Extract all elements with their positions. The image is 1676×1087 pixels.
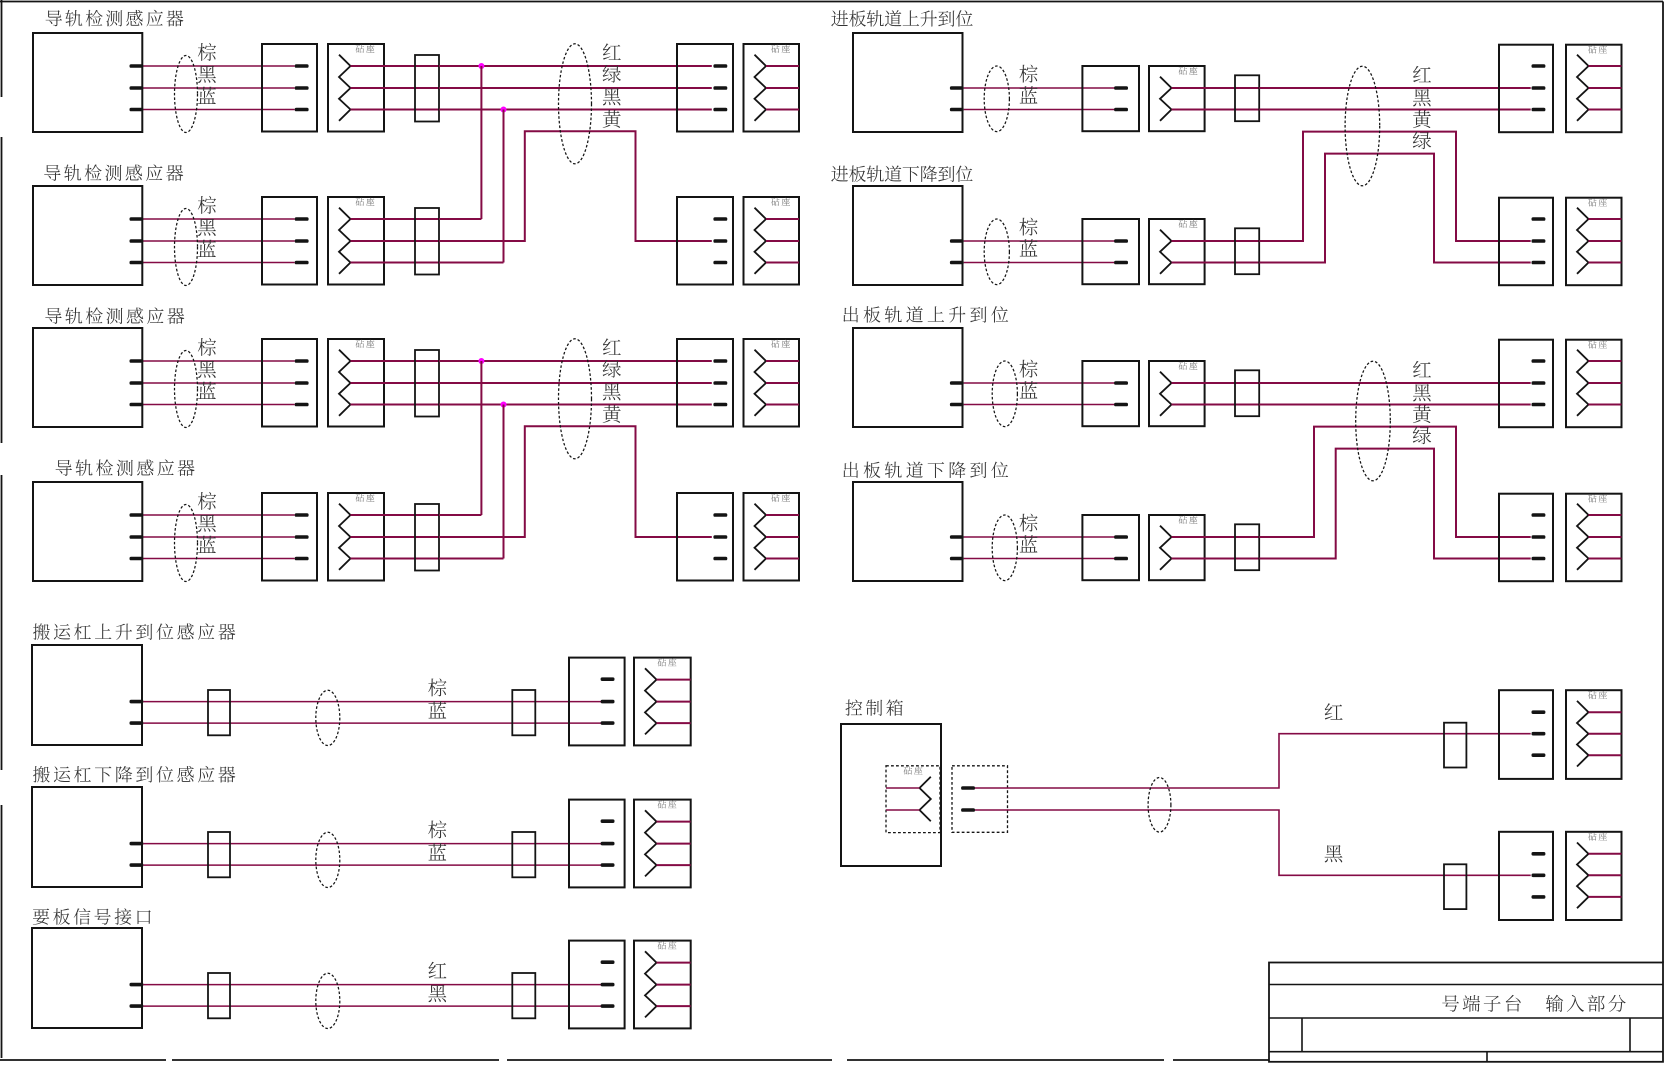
wire from 砧座 X4a [351, 536, 440, 538]
socket 砧座 X1a [328, 44, 384, 132]
wire from 砧座 X1a [351, 109, 440, 111]
wire 进板轨道下降到位 蓝 jog to terminal [1259, 154, 1531, 263]
socket 砧座 (进板轨道下降到位) label 砧座 [1179, 220, 1198, 228]
wire S7 pin1 (棕) [964, 382, 1115, 384]
wire colour label 棕 (出板轨道下降到位) [1019, 514, 1037, 532]
wire 出板轨道上升到位 蓝 to terminal [1259, 404, 1531, 406]
wire 蓝 (搬运杠上升到位感应器) [143, 722, 601, 724]
bus wire colour label 绿 (rows 1-2) [603, 65, 621, 83]
wire from 砧座 pin1 (进板轨道下降到位) [1172, 240, 1260, 242]
wire S5 pin1 (棕) [964, 87, 1115, 89]
wire from 砧座 pin2 (进板轨道下降到位) [1172, 262, 1260, 264]
wire colour label 黑 (要板信号接口) [428, 985, 446, 1002]
title text: 出板轨道上升到位 [843, 306, 1008, 323]
terminal connector (搬运杠下降到位感应器) [569, 800, 625, 888]
title block row dividers [1269, 985, 1663, 1052]
socket 砧座 X4b [744, 493, 800, 581]
cable sheath ellipse (要板信号接口) [316, 973, 340, 1028]
cable sheath ellipse, sensor S8 lead [992, 515, 1017, 581]
ferrule 1 (搬运杠上升到位感应器) [208, 690, 230, 735]
wire 进板轨道下降到位 棕 jog to terminal [1259, 132, 1531, 241]
terminal ferrule F1a [415, 55, 439, 122]
wire colour label 棕 (row 4) [198, 492, 216, 510]
socket 砧座 (出板轨道上升到位) label 砧座 [1179, 362, 1198, 370]
terminal socket 砧座 (进板轨道上升到位) [1566, 45, 1622, 133]
terminal socket 砧座 (进板轨道上升到位) label 砧座 [1588, 45, 1607, 53]
sensor S2 pins [130, 217, 144, 264]
socket 砧座 (进板轨道上升到位) label 砧座 [1179, 67, 1198, 75]
title text: 进板轨道下降到位 [831, 165, 972, 182]
ferrule 1 (搬运杠下降到位感应器) [208, 832, 230, 877]
wire colour label 黑 (控制箱) [1325, 845, 1343, 862]
cable sheath ellipse, sensor S5 lead [984, 66, 1009, 132]
wire 蓝 (搬运杠下降到位感应器) [143, 864, 601, 866]
wire S2 pin2 to plug (黑) [143, 240, 294, 242]
wire 红 from 控制箱 plug [975, 734, 1531, 788]
drawing frame right border [1662, 2, 1664, 963]
bus wire colour label 黑 (rows 1-2) [603, 88, 621, 105]
wire drop, junction to row 2 wire3 [503, 110, 505, 263]
terminal connector (搬运杠上升到位感应器) [569, 658, 625, 746]
socket 砧座 X2b [744, 197, 800, 285]
wire row 4 pin2 jog to connector [439, 426, 712, 537]
wire colour label 蓝 (搬运杠下降到位感应器) [428, 843, 446, 860]
terminal ferrule (出板轨道上升到位) [1235, 370, 1259, 416]
cable sheath ellipse (搬运杠上升到位感应器) [316, 690, 340, 745]
junction node, row 1 wire3 [501, 107, 507, 113]
title text: 搬运杠上升到位感应器 [33, 623, 235, 640]
wire colour label 棕 (row 2) [198, 196, 216, 214]
terminal socket 砧座 (红) [1566, 690, 1622, 779]
cable sheath ellipse, bus rows 3-4 [559, 339, 592, 459]
wire 出板轨道下降到位 棕 jog to terminal [1259, 427, 1531, 537]
terminal connector (黑) [1499, 832, 1553, 920]
socket 砧座 inside 控制箱 (dashed, mirrored) [886, 766, 940, 833]
wire colour label 蓝 (row 4) [198, 536, 216, 553]
wire from 砧座 pin2 (进板轨道上升到位) [1172, 109, 1260, 111]
terminal socket 砧座 (出板轨道上升到位) label 砧座 [1588, 340, 1607, 348]
bus wire colour label 红 (出板轨道上升到位/出板轨道下降到位) [1413, 361, 1431, 377]
cable sheath ellipse, sensor S6 lead [984, 219, 1009, 285]
cable sheath ellipse, sensor S4 lead [175, 505, 198, 582]
bus wire colour label 黄 (进板轨道上升到位/进板轨道下降到位) [1413, 110, 1431, 128]
terminal socket 砧座 (进板轨道下降到位) label 砧座 [1588, 198, 1607, 206]
wire from 砧座 X2a [351, 240, 440, 242]
bus wire colour label 黄 (rows 1-2) [603, 110, 621, 128]
wire 红, rows 3-4 bus [439, 360, 712, 362]
wire S2 pin3 to plug (蓝) [143, 262, 294, 264]
wire from 砧座 pin2 (出板轨道上升到位) [1172, 404, 1260, 406]
terminal ferrule F2a [415, 208, 439, 275]
sensor pins (搬运杠下降到位感应器) [130, 842, 144, 867]
wire colour label 蓝 (搬运杠上升到位感应器) [428, 701, 446, 718]
sensor S8 pins [950, 535, 964, 560]
connector plug (出板轨道下降到位) [1082, 515, 1139, 580]
wire 红, rows 1-2 bus [439, 65, 712, 67]
wire colour label 黑 (row 1) [198, 66, 216, 83]
wire row 4 pin1 to drop [439, 514, 481, 516]
title text: 搬运杠下降到位感应器 [33, 766, 235, 783]
socket 砧座 X2a [328, 197, 384, 285]
wire from 砧座 X2a [351, 218, 440, 220]
socket 砧座 X4a label 砧座 [356, 494, 375, 502]
drawing frame bottom border (dashed) [0, 1059, 1269, 1061]
sensor S5 pins [950, 86, 964, 111]
title text: 出板轨道下降到位 [843, 462, 1008, 479]
title block outline [1269, 963, 1663, 1062]
bus wire colour label 绿 (出板轨道上升到位/出板轨道下降到位) [1413, 426, 1431, 444]
terminal socket 砧座 (红) label 砧座 [1588, 691, 1607, 699]
connector plug P2a [262, 197, 317, 285]
terminal connector (红) [1499, 690, 1553, 779]
socket 砧座 (出板轨道下降到位) label 砧座 [1179, 516, 1198, 524]
terminal socket 砧座 (搬运杠下降到位感应器) [634, 800, 691, 888]
wire colour label 棕 (搬运杠上升到位感应器) [428, 678, 446, 696]
bus wire colour label 红 (进板轨道上升到位/进板轨道下降到位) [1413, 66, 1431, 82]
wire from 砧座 X1a [351, 87, 440, 89]
cable sheath ellipse, bus 进板轨道上升到位/进板轨道下降到位 [1345, 66, 1380, 186]
terminal connector (出板轨道上升到位) [1499, 340, 1553, 428]
wire 进板轨道上升到位 棕 to terminal [1259, 87, 1531, 89]
ferrule (黑 wire) [1444, 864, 1466, 909]
cable sheath ellipse, sensor S7 lead [992, 361, 1017, 427]
connector plug P1b [677, 44, 733, 132]
drawing frame top border [0, 1, 1663, 3]
wire colour label 棕 (进板轨道下降到位) [1019, 218, 1037, 236]
terminal socket 砧座 (搬运杠上升到位感应器) [634, 658, 691, 746]
wire colour label 黑 (row 2) [198, 219, 216, 236]
socket 砧座 X1a label 砧座 [356, 45, 375, 53]
wire from 砧座 X3a [351, 404, 440, 406]
sensor box (要板信号接口) [32, 928, 142, 1028]
wire 进板轨道上升到位 蓝 to terminal [1259, 109, 1531, 111]
bus wire colour label 绿 (rows 3-4) [603, 360, 621, 378]
wire row 2 pin2 jog to connector [439, 131, 712, 241]
title text: 控制箱 [845, 699, 902, 715]
wire colour label 蓝 (出板轨道上升到位) [1020, 381, 1038, 398]
title block column dividers [1302, 1018, 1630, 1062]
connector plug (出板轨道上升到位) [1082, 361, 1139, 426]
cable sheath ellipse (控制箱 lead) [1148, 778, 1171, 833]
wire S4 pin2 to plug (黑) [143, 536, 294, 538]
title block text: 号端子台 输入部分 [1442, 995, 1626, 1012]
wire from 砧座 X4a [351, 514, 440, 516]
sensor box (搬运杠下降到位感应器) [32, 787, 142, 887]
wire colour label 蓝 (进板轨道上升到位) [1020, 86, 1038, 103]
terminal ferrule (出板轨道下降到位) [1235, 524, 1259, 570]
wire 红 (要板信号接口) [143, 984, 601, 986]
wire from 砧座 X3a [351, 382, 440, 384]
socket 砧座 (进板轨道下降到位) [1149, 219, 1205, 284]
wire colour label 蓝 (出板轨道下降到位) [1020, 535, 1038, 552]
cable sheath ellipse, sensor S2 lead [175, 209, 198, 286]
socket 砧座 X2a label 砧座 [356, 198, 375, 206]
wire S8 pin2 (蓝) [964, 558, 1115, 560]
wire S6 pin2 (蓝) [964, 262, 1115, 264]
socket 砧座 (进板轨道上升到位) [1149, 66, 1205, 131]
socket 砧座 X2b label 砧座 [771, 198, 790, 206]
connector plug P3a [262, 339, 317, 427]
wire from 砧座 pin1 (出板轨道上升到位) [1172, 382, 1260, 384]
sensor S3 pins [130, 359, 144, 406]
terminal socket 砧座 (要板信号接口) label 砧座 [658, 941, 677, 949]
bus wire colour label 红 (rows 3-4) [603, 338, 621, 354]
wire S1 pin2 to plug (黑) [143, 87, 294, 89]
wire from 砧座 X1a [351, 65, 440, 67]
wire colour label 黑 (row 4) [198, 515, 216, 532]
wire row 4 pin3 to drop [439, 558, 504, 560]
terminal socket 砧座 (出板轨道下降到位) label 砧座 [1588, 494, 1607, 502]
bus wire colour label 红 (rows 1-2) [603, 43, 621, 59]
wire colour label 红 (控制箱) [1325, 703, 1343, 719]
bus wire colour label 绿 (进板轨道上升到位/进板轨道下降到位) [1413, 131, 1431, 149]
wire row 2 pin3 to drop [439, 262, 504, 264]
connector plug from 控制箱 (dashed) [952, 766, 1008, 833]
wire from 砧座 pin1 (进板轨道上升到位) [1172, 87, 1260, 89]
sensor S6 pins [950, 239, 964, 264]
cable sheath ellipse, bus rows 1-2 [559, 44, 592, 164]
bus wire colour label 黑 (出板轨道上升到位/出板轨道下降到位) [1413, 384, 1431, 401]
ferrule 2 (搬运杠上升到位感应器) [512, 690, 535, 735]
wire 棕 (搬运杠下降到位感应器) [143, 843, 601, 845]
wire row 2 pin1 to drop [439, 218, 481, 220]
title text: 导轨检测感应器 (row 3) [45, 307, 184, 324]
connector plug P4a [262, 493, 317, 581]
wire colour label 红 (要板信号接口) [428, 962, 446, 978]
sensor box S2 (导轨检测感应器) [33, 186, 142, 285]
connector plug P2b [677, 197, 733, 285]
wire S4 pin1 to plug (棕) [143, 514, 294, 516]
terminal socket 砧座 (黑) label 砧座 [1588, 832, 1607, 840]
wire from 砧座 X2a [351, 262, 440, 264]
wire 棕 (搬运杠上升到位感应器) [143, 701, 601, 703]
sensor S1 pins [130, 64, 144, 111]
sensor S7 pins [950, 381, 964, 406]
cable sheath ellipse, bus 出板轨道上升到位/出板轨道下降到位 [1356, 361, 1391, 481]
wire colour label 棕 (row 3) [198, 338, 216, 356]
wire colour label 黑 (row 3) [198, 361, 216, 378]
wire colour label 蓝 (row 3) [198, 382, 216, 399]
wire colour label 棕 (出板轨道上升到位) [1019, 360, 1037, 378]
socket 砧座 X3a [328, 339, 384, 427]
title text: 导轨检测感应器 (row 2) [44, 164, 183, 181]
terminal socket 砧座 (要板信号接口) [634, 941, 691, 1029]
sensor box S4 (导轨检测感应器) [33, 482, 142, 581]
connector plug P1a [262, 44, 317, 132]
sensor pins (搬运杠上升到位感应器) [130, 700, 144, 725]
ferrule 2 (搬运杠下降到位感应器) [512, 832, 535, 877]
terminal ferrule (进板轨道下降到位) [1235, 228, 1259, 274]
ferrule 1 (要板信号接口) [208, 973, 230, 1018]
wire colour label 棕 (进板轨道上升到位) [1019, 65, 1037, 83]
socket 砧座 (出板轨道下降到位) [1149, 515, 1205, 580]
wire from 砧座 X4a [351, 558, 440, 560]
wire from 砧座 X3a [351, 360, 440, 362]
sensor S4 pins [130, 513, 144, 560]
title text: 要板信号接口 [33, 908, 151, 925]
wire colour label 蓝 (进板轨道下降到位) [1020, 239, 1038, 256]
wire S3 pin2 to plug (黑) [143, 382, 294, 384]
junction node, row 3 wire1 [478, 358, 484, 364]
connector plug (进板轨道下降到位) [1082, 219, 1139, 284]
wire 绿, rows 1-2 bus [439, 87, 712, 89]
wire S6 pin1 (棕) [964, 240, 1115, 242]
socket 砧座 X4a [328, 493, 384, 581]
control box 控制箱 [841, 724, 941, 866]
wire drop, junction to row 4 wire3 [503, 405, 505, 559]
wire S7 pin2 (蓝) [964, 404, 1115, 406]
wire S5 pin2 (蓝) [964, 109, 1115, 111]
socket 砧座 inside 控制箱 (dashed, mirrored) label 砧座 [904, 766, 923, 774]
terminal connector (出板轨道下降到位) [1499, 494, 1553, 582]
bus wire colour label 黄 (出板轨道上升到位/出板轨道下降到位) [1413, 405, 1431, 423]
sensor pins (要板信号接口) [130, 983, 144, 1008]
wire from 砧座 pin1 (出板轨道下降到位) [1172, 536, 1260, 538]
bus wire colour label 黑 (进板轨道上升到位/进板轨道下降到位) [1413, 89, 1431, 106]
socket 砧座 X3b label 砧座 [771, 340, 790, 348]
wire from 砧座 pin2 (出板轨道下降到位) [1172, 558, 1260, 560]
title text: 进板轨道上升到位 [831, 10, 972, 27]
cable sheath ellipse, sensor S3 lead [175, 351, 198, 428]
sensor box S5 (进板轨道上升到位) [853, 33, 963, 132]
socket 砧座 X3a label 砧座 [356, 340, 375, 348]
terminal connector (进板轨道上升到位) [1499, 45, 1553, 133]
wire S8 pin1 (棕) [964, 536, 1115, 538]
bus wire colour label 黄 (rows 3-4) [603, 405, 621, 423]
wire colour label 蓝 (row 1) [198, 87, 216, 104]
terminal connector (进板轨道下降到位) [1499, 198, 1553, 286]
connector plug (进板轨道上升到位) [1082, 66, 1139, 131]
sensor box S1 (导轨检测感应器) [33, 33, 142, 132]
wire S1 pin3 to plug (蓝) [143, 109, 294, 111]
wire 绿, rows 3-4 bus [439, 382, 712, 384]
terminal socket 砧座 (进板轨道下降到位) [1566, 198, 1622, 286]
terminal ferrule F4a [415, 504, 439, 571]
junction node, row 3 wire3 [501, 402, 507, 408]
sensor box (搬运杠上升到位感应器) [32, 645, 142, 745]
wire 黑 (要板信号接口) [143, 1005, 601, 1007]
cable sheath ellipse, sensor S1 lead [175, 56, 198, 133]
connector plug P4b [677, 493, 733, 581]
wire S4 pin3 to plug (蓝) [143, 558, 294, 560]
sensor box S6 (进板轨道下降到位) [853, 186, 963, 285]
socket 砧座 X1b [744, 44, 800, 132]
drawing frame left border (dashed) [1, 0, 3, 1058]
terminal socket 砧座 (出板轨道下降到位) [1566, 494, 1622, 582]
connector plug P3b [677, 339, 733, 427]
wire drop, junction to row 2 wire1 [480, 66, 482, 219]
wire colour label 蓝 (row 2) [198, 240, 216, 257]
wire colour label 棕 (row 1) [198, 43, 216, 61]
wire colour label 棕 (搬运杠下降到位感应器) [428, 820, 446, 838]
terminal connector (要板信号接口) [569, 941, 625, 1029]
terminal socket 砧座 (搬运杠下降到位感应器) label 砧座 [658, 800, 677, 808]
sensor box S7 (出板轨道上升到位) [853, 328, 963, 427]
ferrule (红 wire) [1444, 723, 1466, 768]
wire 出板轨道下降到位 蓝 jog to terminal [1259, 449, 1531, 559]
wire S3 pin1 to plug (棕) [143, 360, 294, 362]
wire 黑 from 控制箱 plug [975, 810, 1531, 875]
wire 黑, rows 3-4 bus [439, 404, 712, 406]
terminal ferrule F3a [415, 350, 439, 417]
ferrule 2 (要板信号接口) [512, 973, 535, 1018]
wire S3 pin3 to plug (蓝) [143, 404, 294, 406]
socket 砧座 X1b label 砧座 [771, 45, 790, 53]
wire 出板轨道上升到位 棕 to terminal [1259, 382, 1531, 384]
bus wire colour label 黑 (rows 3-4) [603, 383, 621, 400]
wire 黑, rows 1-2 bus [439, 109, 712, 111]
terminal ferrule (进板轨道上升到位) [1235, 75, 1259, 121]
sensor box S8 (出板轨道下降到位) [853, 482, 963, 581]
wire S2 pin1 to plug (棕) [143, 218, 294, 220]
junction node, row 1 wire1 [478, 63, 484, 69]
title text: 导轨检测感应器 (row 1) [46, 10, 184, 27]
terminal socket 砧座 (搬运杠上升到位感应器) label 砧座 [658, 658, 677, 666]
socket 砧座 X4b label 砧座 [771, 494, 790, 502]
socket 砧座 X3b [744, 339, 800, 427]
socket 砧座 (出板轨道上升到位) [1149, 361, 1205, 426]
terminal socket 砧座 (黑) [1566, 832, 1622, 920]
terminal socket 砧座 (出板轨道上升到位) [1566, 340, 1622, 428]
sensor box S3 (导轨检测感应器) [33, 328, 142, 427]
wire drop, junction to row 4 wire1 [480, 361, 482, 515]
wire S1 pin1 to plug (棕) [143, 65, 294, 67]
title text: 导轨检测感应器 (row 4) [56, 459, 195, 476]
cable sheath ellipse (搬运杠下降到位感应器) [316, 832, 340, 887]
